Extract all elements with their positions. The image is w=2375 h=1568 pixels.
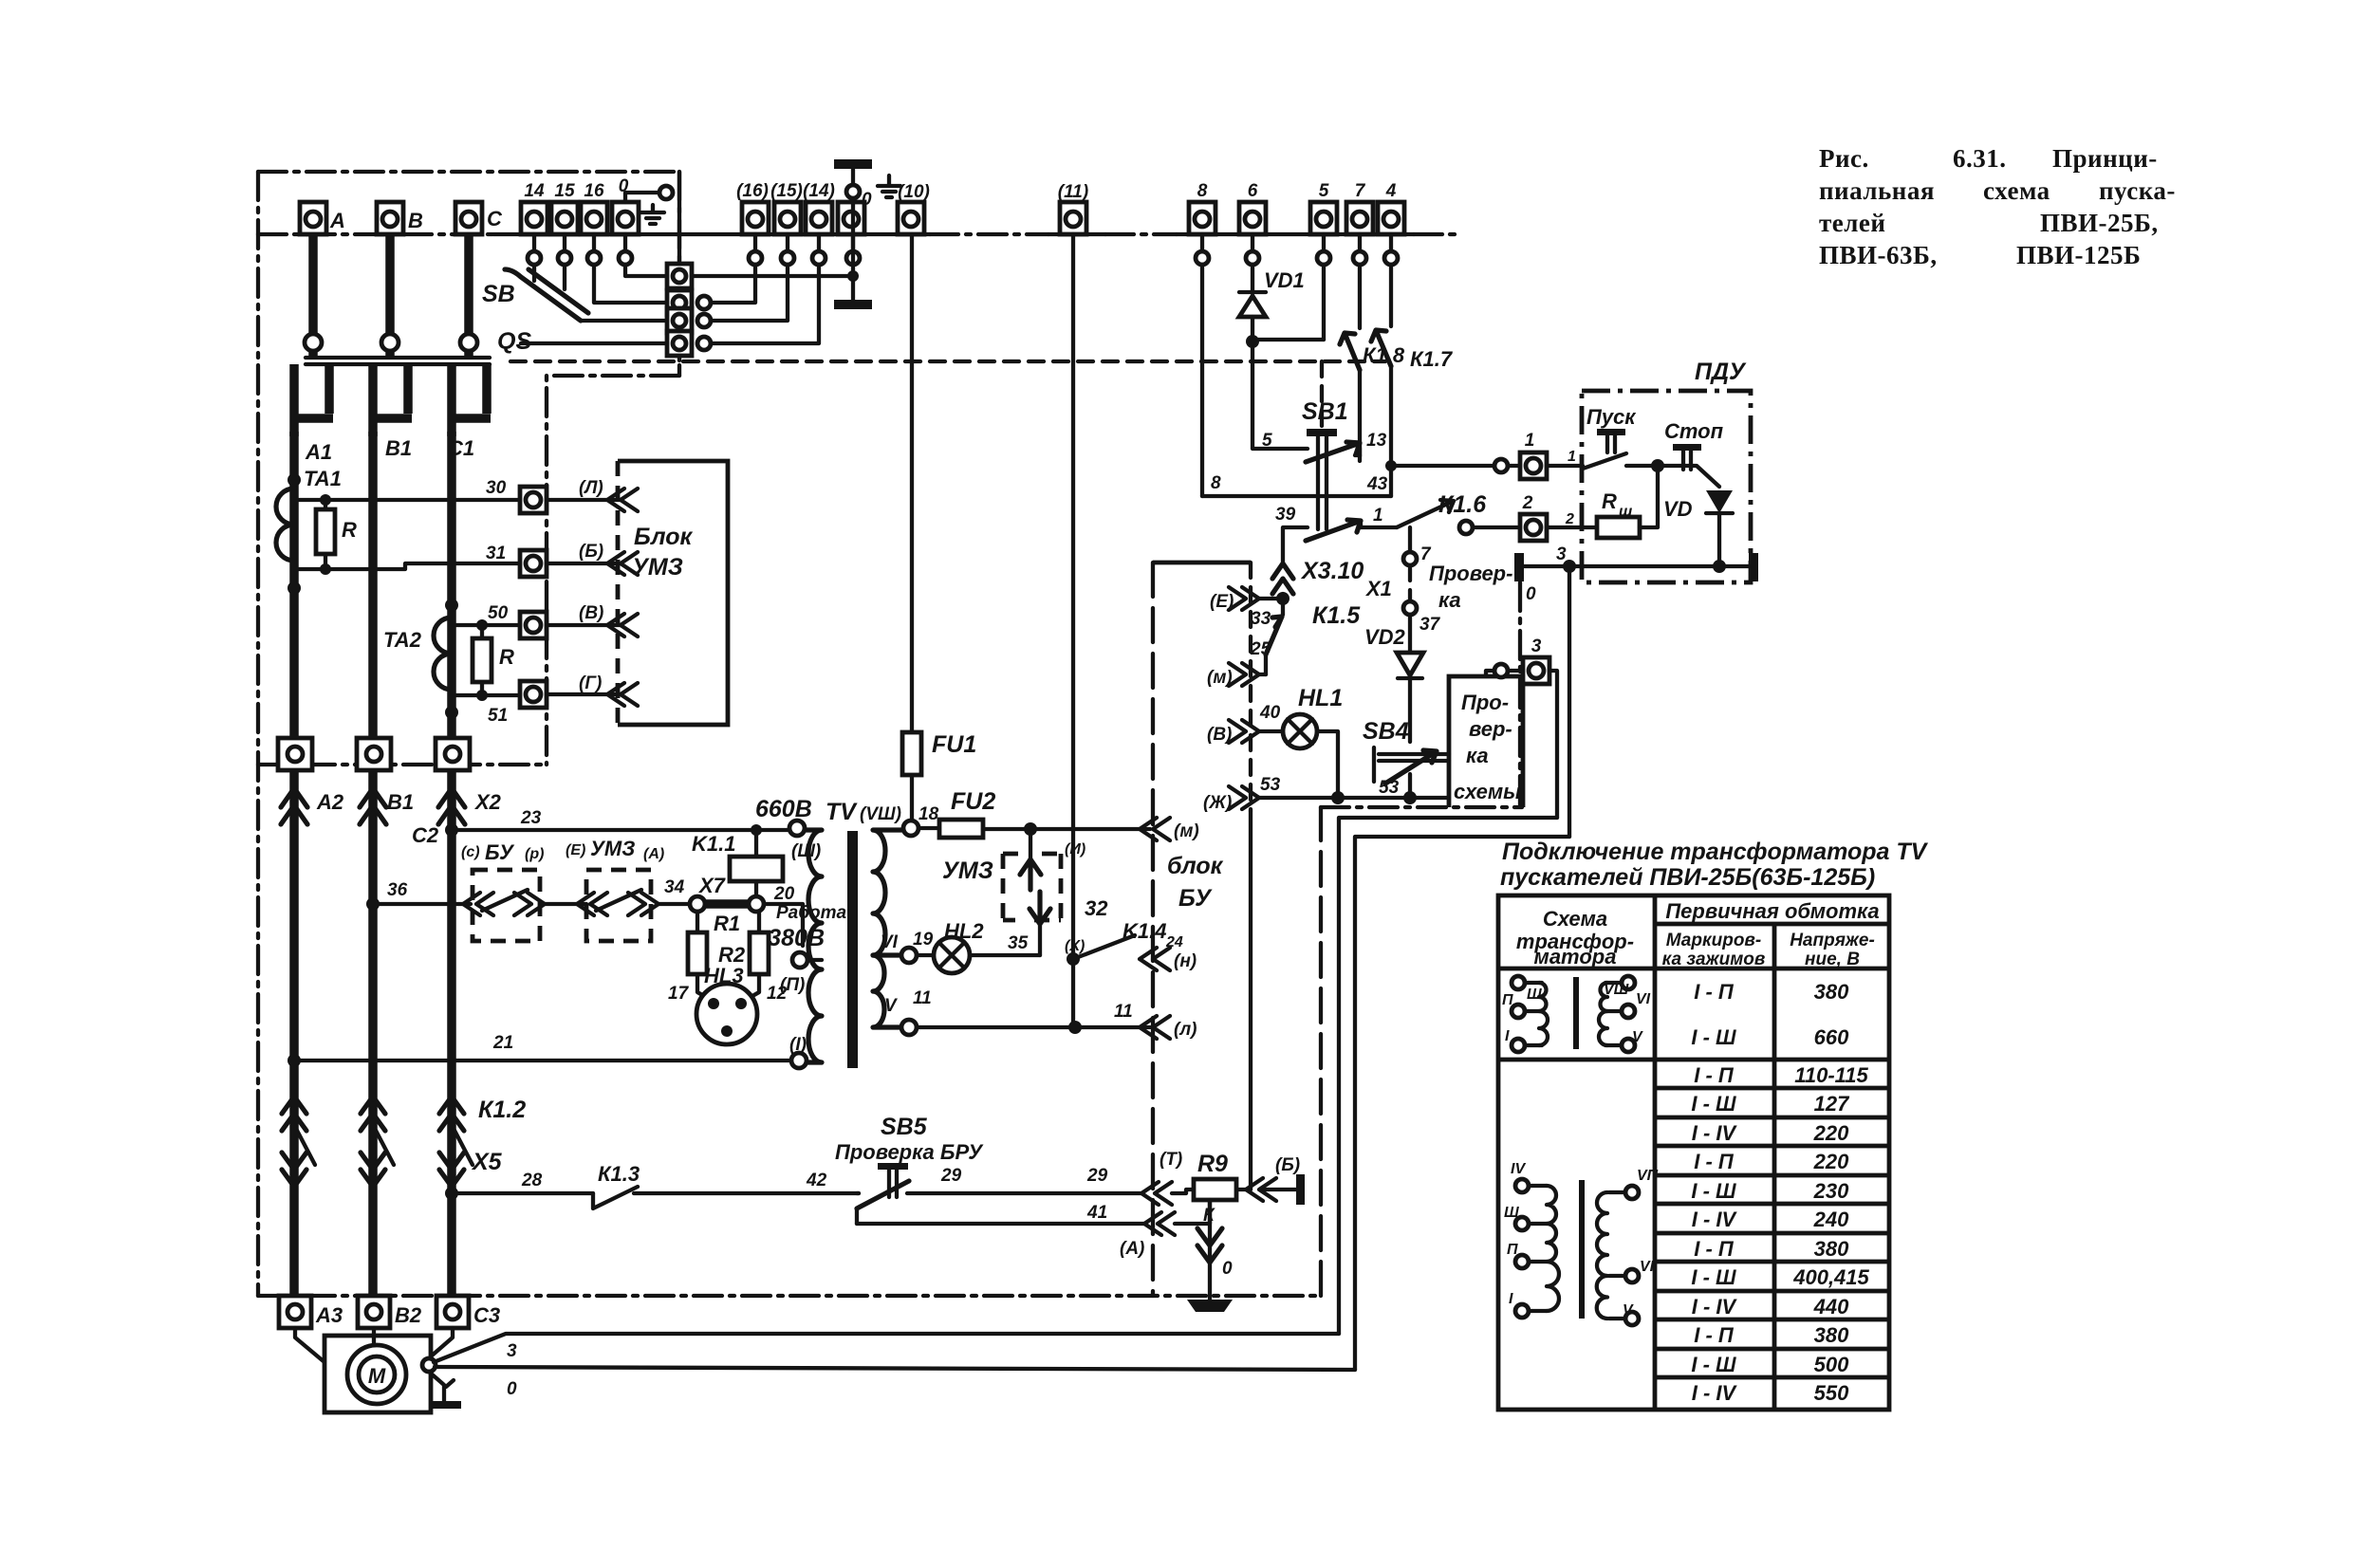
long dashed barrier line	[510, 360, 1385, 363]
table column divider 2	[1772, 924, 1777, 1410]
wire 23	[452, 828, 789, 832]
svg-text:25: 25	[1250, 639, 1271, 659]
svg-text:TV: TV	[826, 799, 858, 825]
svg-text:HL1: HL1	[1298, 685, 1343, 711]
svg-text:(10): (10)	[898, 182, 930, 202]
connector arrow (В)	[607, 614, 638, 636]
svg-text:17: 17	[668, 984, 690, 1004]
svg-text:Пуск: Пуск	[1586, 405, 1637, 429]
connector circle X7	[749, 896, 764, 912]
svg-text:R: R	[1602, 489, 1617, 513]
connector column vertical	[677, 172, 681, 360]
svg-text:Первичная обмотка: Первичная обмотка	[1665, 899, 1879, 923]
svg-text:3: 3	[1531, 636, 1542, 656]
svg-text:I - IV: I - IV	[1692, 1295, 1738, 1319]
svg-text:6: 6	[1248, 181, 1258, 201]
svg-text:1: 1	[1568, 449, 1576, 465]
connector arrow (В)	[1229, 720, 1259, 743]
terminal 51	[520, 681, 547, 708]
QS pole circles	[305, 334, 322, 351]
connector arrow into БУ contact	[463, 893, 493, 915]
top bus solid segment	[493, 232, 930, 236]
wire 29-41 to R9	[1172, 1190, 1210, 1224]
connector arrows X2	[438, 788, 465, 824]
table header lines	[1498, 924, 1889, 1060]
svg-text:A1: A1	[305, 440, 332, 464]
svg-text:(В): (В)	[579, 603, 603, 623]
svg-text:V: V	[1623, 1302, 1634, 1319]
0-bar vertical to lower flag	[851, 198, 855, 300]
svg-text:21: 21	[492, 1033, 513, 1053]
БУ block left boundary	[1151, 563, 1155, 1296]
svg-text:матора: матора	[1534, 945, 1617, 968]
connector arrow (М) into БУ	[1140, 818, 1170, 840]
top bus dash-dot segment 3	[1105, 232, 1177, 236]
svg-text:33: 33	[1251, 609, 1271, 629]
wire B2 to motor	[372, 1328, 376, 1345]
connector circle before terminal 1	[1494, 459, 1508, 472]
SB wire to connector box3	[581, 319, 667, 323]
connector circle at 3	[1494, 664, 1508, 677]
terminal 6	[1239, 181, 1266, 234]
svg-text:X1: X1	[1364, 577, 1392, 600]
svg-text:R1: R1	[714, 912, 740, 935]
resistor Rш	[1547, 466, 1658, 538]
svg-text:TA2: TA2	[383, 628, 422, 652]
БУ block top cap	[1153, 561, 1251, 565]
block УМЗ box	[618, 461, 728, 725]
lamp HL1	[1259, 714, 1338, 791]
terminal 16	[581, 181, 607, 234]
transformer primary winding	[805, 830, 822, 1062]
svg-text:400,415: 400,415	[1792, 1265, 1869, 1289]
svg-text:схема: схема	[1983, 176, 2050, 205]
svg-text:VП: VП	[1637, 1168, 1659, 1184]
wire 21	[294, 1059, 791, 1062]
junction dot wire36	[366, 897, 380, 911]
svg-text:(Л): (Л)	[579, 478, 603, 498]
vertical line 32 from terminal (11)	[1071, 234, 1075, 1027]
fuse FU1	[902, 234, 976, 821]
terminal 14	[521, 181, 547, 234]
svg-text:Напряже-: Напряже-	[1790, 931, 1875, 950]
terminal 8	[1189, 181, 1215, 234]
node circle at 0 link	[659, 186, 673, 199]
svg-text:50: 50	[488, 603, 509, 623]
svg-text:1: 1	[1525, 431, 1535, 451]
switch SB4	[1363, 718, 1449, 791]
enclosure dash-dot under proверка box	[1321, 805, 1522, 809]
terminal C	[455, 202, 503, 234]
wire 51 to UMZ arrow	[547, 692, 621, 696]
thick link 34-X7	[705, 899, 750, 909]
transformer primary bottom terminal (I)	[791, 1053, 807, 1068]
svg-text:(14): (14)	[803, 181, 835, 201]
motor M	[325, 1336, 431, 1412]
relay coil K1.1	[692, 830, 783, 896]
wire 1 to terminal 1	[1391, 464, 1494, 468]
svg-text:I - П: I - П	[1694, 1237, 1735, 1261]
svg-text:660В: 660В	[755, 796, 812, 822]
QS pole stems	[313, 349, 469, 358]
junction dots at R of TA1	[320, 494, 331, 506]
SB1 lower contact blade	[1306, 520, 1361, 541]
wire УМЗ top to FU2 wire	[1029, 829, 1032, 859]
connector arrow (Ж)	[1229, 786, 1259, 809]
enclosure ledge dash-dot	[547, 376, 679, 765]
svg-text:380: 380	[1814, 1237, 1849, 1261]
wire 8 horizontal	[1202, 494, 1391, 498]
terminal 31	[520, 550, 547, 577]
terminal 0-bar	[838, 202, 864, 234]
wire A3 to motor	[295, 1328, 325, 1362]
transformer core	[847, 831, 858, 1068]
wire (Б) to tick	[1263, 1188, 1296, 1191]
connector X3.10 arrow	[1272, 563, 1293, 594]
wire box to terminal 3	[1486, 671, 1523, 676]
svg-text:ПДУ: ПДУ	[1695, 359, 1747, 385]
0-net vertical drop	[1568, 566, 1571, 837]
wire X3.10 to (Е) junction	[1281, 594, 1285, 597]
top bus dash-dot line	[258, 232, 493, 236]
svg-text:42: 42	[806, 1171, 827, 1190]
svg-text:43: 43	[1366, 474, 1388, 494]
ground pad К	[1187, 1300, 1233, 1312]
svg-text:схемы: схемы	[1454, 780, 1521, 803]
svg-text:53: 53	[1260, 775, 1281, 795]
wire 29	[907, 1191, 1143, 1195]
terminal 0 ground link	[625, 193, 659, 202]
svg-text:I - Ш: I - Ш	[1691, 1353, 1736, 1376]
0-net route	[1355, 837, 1569, 1370]
contact K1.8	[1340, 333, 1360, 370]
svg-text:VI: VI	[1636, 991, 1651, 1007]
svg-text:УМЗ: УМЗ	[632, 554, 683, 581]
svg-text:ПВИ-25Б,: ПВИ-25Б,	[2040, 209, 2159, 237]
svg-text:Ш: Ш	[1527, 987, 1542, 1003]
svg-text:31: 31	[486, 544, 506, 563]
contact БУ dashed box	[473, 870, 540, 941]
svg-text:(В): (В)	[1207, 725, 1232, 745]
svg-text:380: 380	[1814, 980, 1849, 1004]
terminal 1	[1520, 431, 1547, 479]
wire 28	[452, 1191, 593, 1195]
svg-text:ка: ка	[1438, 588, 1461, 612]
svg-text:(А): (А)	[1120, 1239, 1144, 1259]
БУ contact blade	[482, 890, 528, 911]
svg-text:0: 0	[1526, 584, 1536, 604]
ПДУ frame dash-dot	[1582, 391, 1751, 582]
svg-text:A2: A2	[316, 790, 344, 814]
junction dot wire1 branch	[1385, 460, 1397, 471]
wire 14-column down	[532, 265, 536, 281]
junction dot on 0-bar column	[847, 270, 859, 282]
wire terminal 8 down	[1200, 265, 1204, 496]
svg-text:660: 660	[1814, 1025, 1849, 1049]
svg-text:(I): (I)	[789, 1035, 807, 1055]
terminal B	[377, 202, 423, 234]
junction dot VD1	[1246, 335, 1259, 348]
svg-text:K1.1: K1.1	[692, 832, 735, 856]
svg-text:14: 14	[524, 181, 545, 201]
wire 0-column down	[625, 265, 667, 276]
svg-text:(Г): (Г)	[579, 673, 602, 693]
terminal 50	[520, 612, 547, 638]
svg-text:I - Ш: I - Ш	[1691, 1025, 1736, 1049]
switch SB blades	[505, 269, 588, 321]
SB1 upper contact blade	[1306, 442, 1360, 462]
УМЗ down arrow	[1030, 892, 1050, 924]
svg-text:240: 240	[1813, 1208, 1849, 1231]
fuse FU2	[918, 788, 995, 838]
transformer primary top terminal	[789, 821, 805, 836]
svg-text:(Б): (Б)	[579, 542, 603, 562]
wire X1 to VD2	[1408, 615, 1412, 651]
resistor R2	[718, 912, 769, 1000]
SB1 plunger double line	[1318, 436, 1327, 529]
svg-text:ПВИ-125Б: ПВИ-125Б	[2016, 241, 2141, 269]
wire to X7	[659, 902, 690, 906]
svg-text:I - Ш: I - Ш	[1691, 1179, 1736, 1203]
svg-text:М: М	[368, 1364, 386, 1388]
УМЗ up arrow	[1020, 859, 1041, 890]
svg-text:X5: X5	[471, 1149, 503, 1175]
transformer tap (II) terminal	[792, 952, 807, 968]
svg-text:R: R	[499, 645, 514, 669]
wire 16-column down	[594, 265, 667, 303]
terminal B2	[358, 1296, 422, 1328]
svg-text:VШ: VШ	[1604, 982, 1629, 998]
svg-text:(с): (с)	[461, 844, 480, 860]
svg-text:K1.4: K1.4	[1123, 919, 1166, 943]
svg-text:VD: VD	[1663, 497, 1693, 521]
svg-text:Ш: Ш	[1504, 1205, 1519, 1221]
svg-text:230: 230	[1813, 1179, 1849, 1203]
connector arrow (М) lower	[1229, 663, 1259, 686]
svg-text:I: I	[1509, 1291, 1513, 1307]
svg-text:11: 11	[1114, 1002, 1133, 1022]
terminal 7	[1346, 181, 1373, 234]
junction dot HL1 on 53	[1331, 791, 1345, 804]
top bus solid segment 3	[1177, 232, 1414, 236]
svg-text:FU2: FU2	[951, 788, 995, 815]
wire VD1 to K1.7 bottom	[1252, 338, 1324, 341]
svg-text:пускателей ПВИ-25Б(63Б-125Б): пускателей ПВИ-25Б(63Б-125Б)	[1500, 864, 1875, 891]
wire terminal 5 down	[1322, 265, 1326, 340]
QS knife bar double line	[306, 358, 490, 364]
svg-text:380: 380	[1814, 1323, 1849, 1347]
terminal (11)	[1058, 182, 1088, 234]
svg-text:Провер-: Провер-	[1429, 562, 1512, 585]
terminal 2	[1520, 493, 1547, 541]
ground symbol at terminal 0	[641, 205, 664, 224]
terminal 3	[1523, 636, 1549, 684]
svg-text:4: 4	[1385, 181, 1397, 201]
enclosure frame right vertical dash-dot	[677, 172, 681, 376]
svg-text:0: 0	[862, 190, 872, 210]
terminal 30	[520, 487, 547, 513]
junction dot (Е)	[1276, 592, 1290, 605]
svg-text:I - П: I - П	[1694, 980, 1735, 1004]
lower connector terminal X2	[436, 738, 470, 770]
phase C jumper stubs	[448, 364, 491, 436]
wire 36	[373, 902, 471, 906]
svg-text:ка зажимов: ка зажимов	[1662, 950, 1766, 969]
wire box3 to (15)	[704, 265, 788, 321]
wire (Е) to junction	[1259, 597, 1283, 600]
svg-text:ние, В: ние, В	[1805, 950, 1860, 969]
junction dot 0-net	[1563, 560, 1576, 573]
svg-text:(н): (н)	[1174, 951, 1197, 971]
wire 3 diagonal	[434, 1334, 1339, 1362]
connector arrow out of БУ contact	[514, 893, 545, 915]
svg-text:I - П: I - П	[1694, 1063, 1735, 1087]
figure caption	[1819, 144, 2176, 269]
box Проверка схемы	[1449, 676, 1523, 807]
svg-text:C1: C1	[448, 436, 474, 460]
svg-text:220: 220	[1813, 1121, 1849, 1145]
phase A jumper stubs	[290, 364, 333, 436]
svg-text:X2: X2	[473, 790, 502, 814]
table rows column 2	[1691, 980, 1737, 1405]
svg-text:VI: VI	[1640, 1259, 1655, 1275]
svg-text:Блок: Блок	[634, 524, 693, 550]
connector circle 34	[690, 896, 705, 912]
junction dot VD bottom	[1713, 560, 1726, 573]
svg-text:Принци-: Принци-	[2052, 144, 2158, 173]
svg-text:2: 2	[1522, 493, 1533, 513]
phase A main line	[289, 432, 299, 1307]
svg-text:V: V	[884, 996, 898, 1016]
wire 15-column down	[563, 265, 566, 289]
resistor R of TA2	[452, 625, 514, 695]
phase C drop to QS	[464, 234, 473, 334]
svg-text:5: 5	[1262, 431, 1272, 451]
svg-text:220: 220	[1813, 1150, 1849, 1173]
connector X1	[1364, 552, 1417, 615]
top bus solid segment 2	[1048, 232, 1105, 236]
svg-text:пуска-: пуска-	[2099, 176, 2176, 205]
svg-text:(Ж): (Ж)	[1203, 793, 1232, 813]
lower terminal row dash-dot	[258, 763, 547, 766]
svg-text:УМЗ: УМЗ	[942, 858, 993, 884]
terminal (10)	[898, 182, 930, 234]
svg-text:C: C	[487, 207, 503, 231]
svg-text:X3.10: X3.10	[1300, 558, 1364, 584]
svg-text:SB5: SB5	[881, 1114, 928, 1140]
svg-text:ка: ка	[1466, 744, 1489, 767]
svg-text:16: 16	[584, 181, 604, 201]
connector arrow 41 into БУ	[1144, 1212, 1175, 1235]
contact УМЗ dashed box	[586, 870, 651, 941]
svg-text:Про-: Про-	[1461, 691, 1509, 714]
block УМЗ dashed left edge	[616, 461, 621, 725]
wire 30 to UMZ arrow	[547, 498, 621, 502]
phase B jumper stubs	[369, 364, 412, 436]
svg-text:41: 41	[1086, 1203, 1107, 1223]
svg-text:I - Ш: I - Ш	[1691, 1265, 1736, 1289]
wire C3 to motor	[431, 1328, 453, 1356]
svg-text:I - IV: I - IV	[1692, 1381, 1738, 1405]
small connector circles row	[528, 251, 1398, 265]
svg-text:37: 37	[1419, 615, 1441, 635]
vertical (Б) line up	[1249, 811, 1252, 1190]
svg-text:0: 0	[507, 1379, 517, 1399]
SB1 button linkage dashed	[1320, 361, 1324, 429]
УМЗ unit dashed box	[1003, 854, 1061, 920]
secondary terminal VI	[901, 948, 917, 963]
resistor R of TA1	[294, 500, 357, 569]
connector arrow (Л)	[607, 489, 638, 511]
svg-text:(VШ): (VШ)	[860, 804, 901, 824]
connector box4	[667, 331, 692, 356]
svg-text:Рис.: Рис.	[1819, 144, 1869, 173]
wire 0 bus	[1524, 564, 1749, 568]
svg-text:V: V	[1632, 1029, 1643, 1045]
terminal C3	[436, 1296, 500, 1328]
terminal 0	[612, 176, 639, 234]
svg-text:(м): (м)	[1174, 821, 1199, 841]
diode VD	[1706, 490, 1733, 566]
transformer secondary winding upper	[873, 830, 903, 955]
button Стоп	[1658, 444, 1719, 487]
svg-text:110-115: 110-115	[1794, 1063, 1868, 1087]
enclosure frame top dash-dot	[258, 170, 679, 174]
0 bus end tick	[1749, 553, 1758, 581]
contact K1.7	[1371, 330, 1391, 366]
svg-text:Проверка БРУ: Проверка БРУ	[835, 1140, 984, 1164]
lamp HL3	[696, 964, 757, 1044]
contact K1.5	[1281, 599, 1285, 615]
winding diagram cell 2	[1504, 1161, 1659, 1325]
svg-text:7: 7	[1355, 181, 1366, 201]
junction dot TA2 top	[445, 599, 458, 612]
connector box3	[667, 308, 692, 333]
svg-text:VD1: VD1	[1264, 268, 1305, 292]
svg-text:(А): (А)	[643, 846, 664, 862]
svg-text:(Т): (Т)	[1160, 1150, 1182, 1170]
junction dots at R of TA2	[476, 619, 488, 631]
svg-text:SB: SB	[482, 281, 515, 307]
terminal 4	[1378, 181, 1404, 234]
winding diagram cell 1	[1502, 976, 1651, 1052]
terminal (16)	[736, 181, 769, 234]
motor node circle	[422, 1358, 436, 1372]
contact group K1.2 phase A	[282, 1097, 315, 1187]
table row lines	[1655, 1088, 1889, 1377]
svg-text:I - IV: I - IV	[1692, 1208, 1738, 1231]
svg-text:VI: VI	[881, 932, 899, 952]
svg-text:П: П	[1502, 992, 1513, 1008]
secondary terminal VIII	[903, 821, 918, 836]
svg-text:I: I	[1505, 1028, 1510, 1044]
svg-text:11: 11	[913, 988, 932, 1008]
junction dot Пуск-Стоп	[1651, 459, 1664, 472]
svg-text:блок: блок	[1167, 853, 1224, 879]
secondary terminal V	[901, 1020, 917, 1035]
svg-text:Подключение трансформатора ТV: Подключение трансформатора ТV	[1502, 839, 1929, 865]
svg-text:Стоп: Стоп	[1664, 419, 1724, 443]
wire 50	[482, 623, 520, 627]
svg-text:30: 30	[486, 478, 507, 498]
svg-text:вер-: вер-	[1469, 717, 1512, 741]
svg-text:(Б): (Б)	[1275, 1155, 1300, 1175]
junction dot on FU2 wire	[1024, 822, 1037, 836]
svg-text:23: 23	[520, 808, 542, 828]
junction dot K1.1 top	[751, 824, 762, 836]
svg-text:19: 19	[913, 930, 934, 950]
wire terminal 6 down to VD1	[1251, 265, 1254, 292]
